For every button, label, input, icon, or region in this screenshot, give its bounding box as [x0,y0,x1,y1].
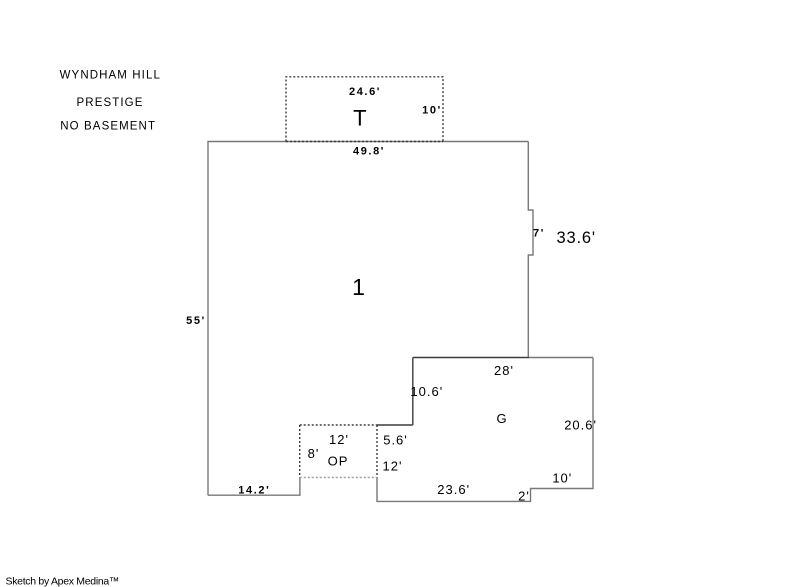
svg-text:14.2': 14.2' [238,485,270,497]
svg-text:7': 7' [533,228,545,240]
svg-text:49.8': 49.8' [353,146,385,158]
svg-text:NO BASEMENT: NO BASEMENT [60,121,156,133]
svg-text:OP: OP [328,454,349,469]
svg-text:24.6': 24.6' [349,86,381,98]
svg-text:PRESTIGE: PRESTIGE [77,97,144,109]
svg-text:12': 12' [383,458,403,473]
svg-text:12': 12' [329,432,349,447]
svg-text:28': 28' [494,363,514,378]
svg-text:10': 10' [552,471,572,486]
svg-text:Sketch by Apex Medina™: Sketch by Apex Medina™ [6,575,120,587]
svg-text:2': 2' [518,489,530,504]
svg-text:23.6': 23.6' [437,482,470,497]
svg-text:10': 10' [422,105,442,117]
svg-text:WYNDHAM HILL: WYNDHAM HILL [60,70,161,82]
svg-text:55': 55' [186,315,206,327]
svg-text:T: T [353,105,366,130]
svg-text:33.6': 33.6' [557,229,596,247]
svg-text:10.6': 10.6' [410,384,443,399]
svg-text:G: G [496,411,507,426]
svg-text:8': 8' [308,446,320,461]
svg-text:5.6': 5.6' [383,432,408,447]
svg-text:20.6': 20.6' [564,418,597,433]
svg-text:1: 1 [352,274,365,300]
